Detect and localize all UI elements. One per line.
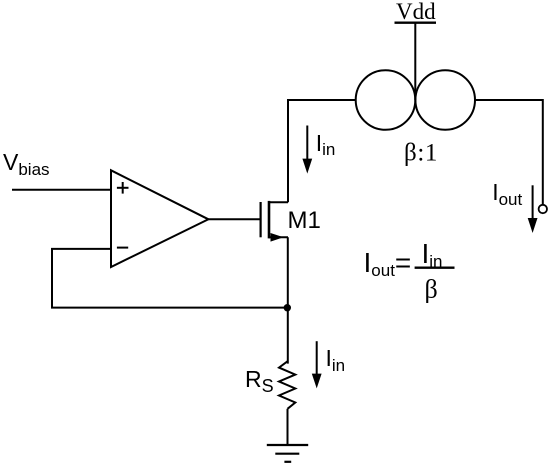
wire mirror left to drain corner xyxy=(288,100,356,202)
op-amp plus input mark xyxy=(117,182,129,194)
op-amp U1 xyxy=(111,170,208,267)
wire op-amp output to gate xyxy=(208,218,259,220)
wire source down through node to resistor xyxy=(287,237,289,363)
svg-text:M1: M1 xyxy=(288,207,321,234)
svg-text:β: β xyxy=(425,275,438,304)
wire Vbias to +input xyxy=(12,189,111,191)
current arrow Iin (resistor) xyxy=(312,341,322,388)
current mirror right circle xyxy=(415,70,475,130)
output terminal circle xyxy=(539,205,547,213)
op-amp minus input mark xyxy=(117,247,128,249)
resistor RS xyxy=(279,361,295,409)
Vdd supply bar xyxy=(395,22,437,24)
svg-text:Vdd: Vdd xyxy=(396,0,436,24)
wire Vdd to mirror xyxy=(414,23,416,100)
wire resistor to ground xyxy=(287,409,289,445)
wire feedback from minus input to source node xyxy=(52,249,287,308)
current arrow Iin (drain) xyxy=(302,126,312,174)
transistor M1 xyxy=(261,201,288,242)
ground xyxy=(267,445,308,462)
formula Iout = Iin / beta xyxy=(364,238,455,304)
node junction dot xyxy=(284,304,291,311)
svg-text:β:1: β:1 xyxy=(404,140,438,167)
wire mirror right to output terminal xyxy=(475,100,543,205)
current mirror left circle xyxy=(356,70,416,130)
current arrow Iout xyxy=(528,185,538,233)
